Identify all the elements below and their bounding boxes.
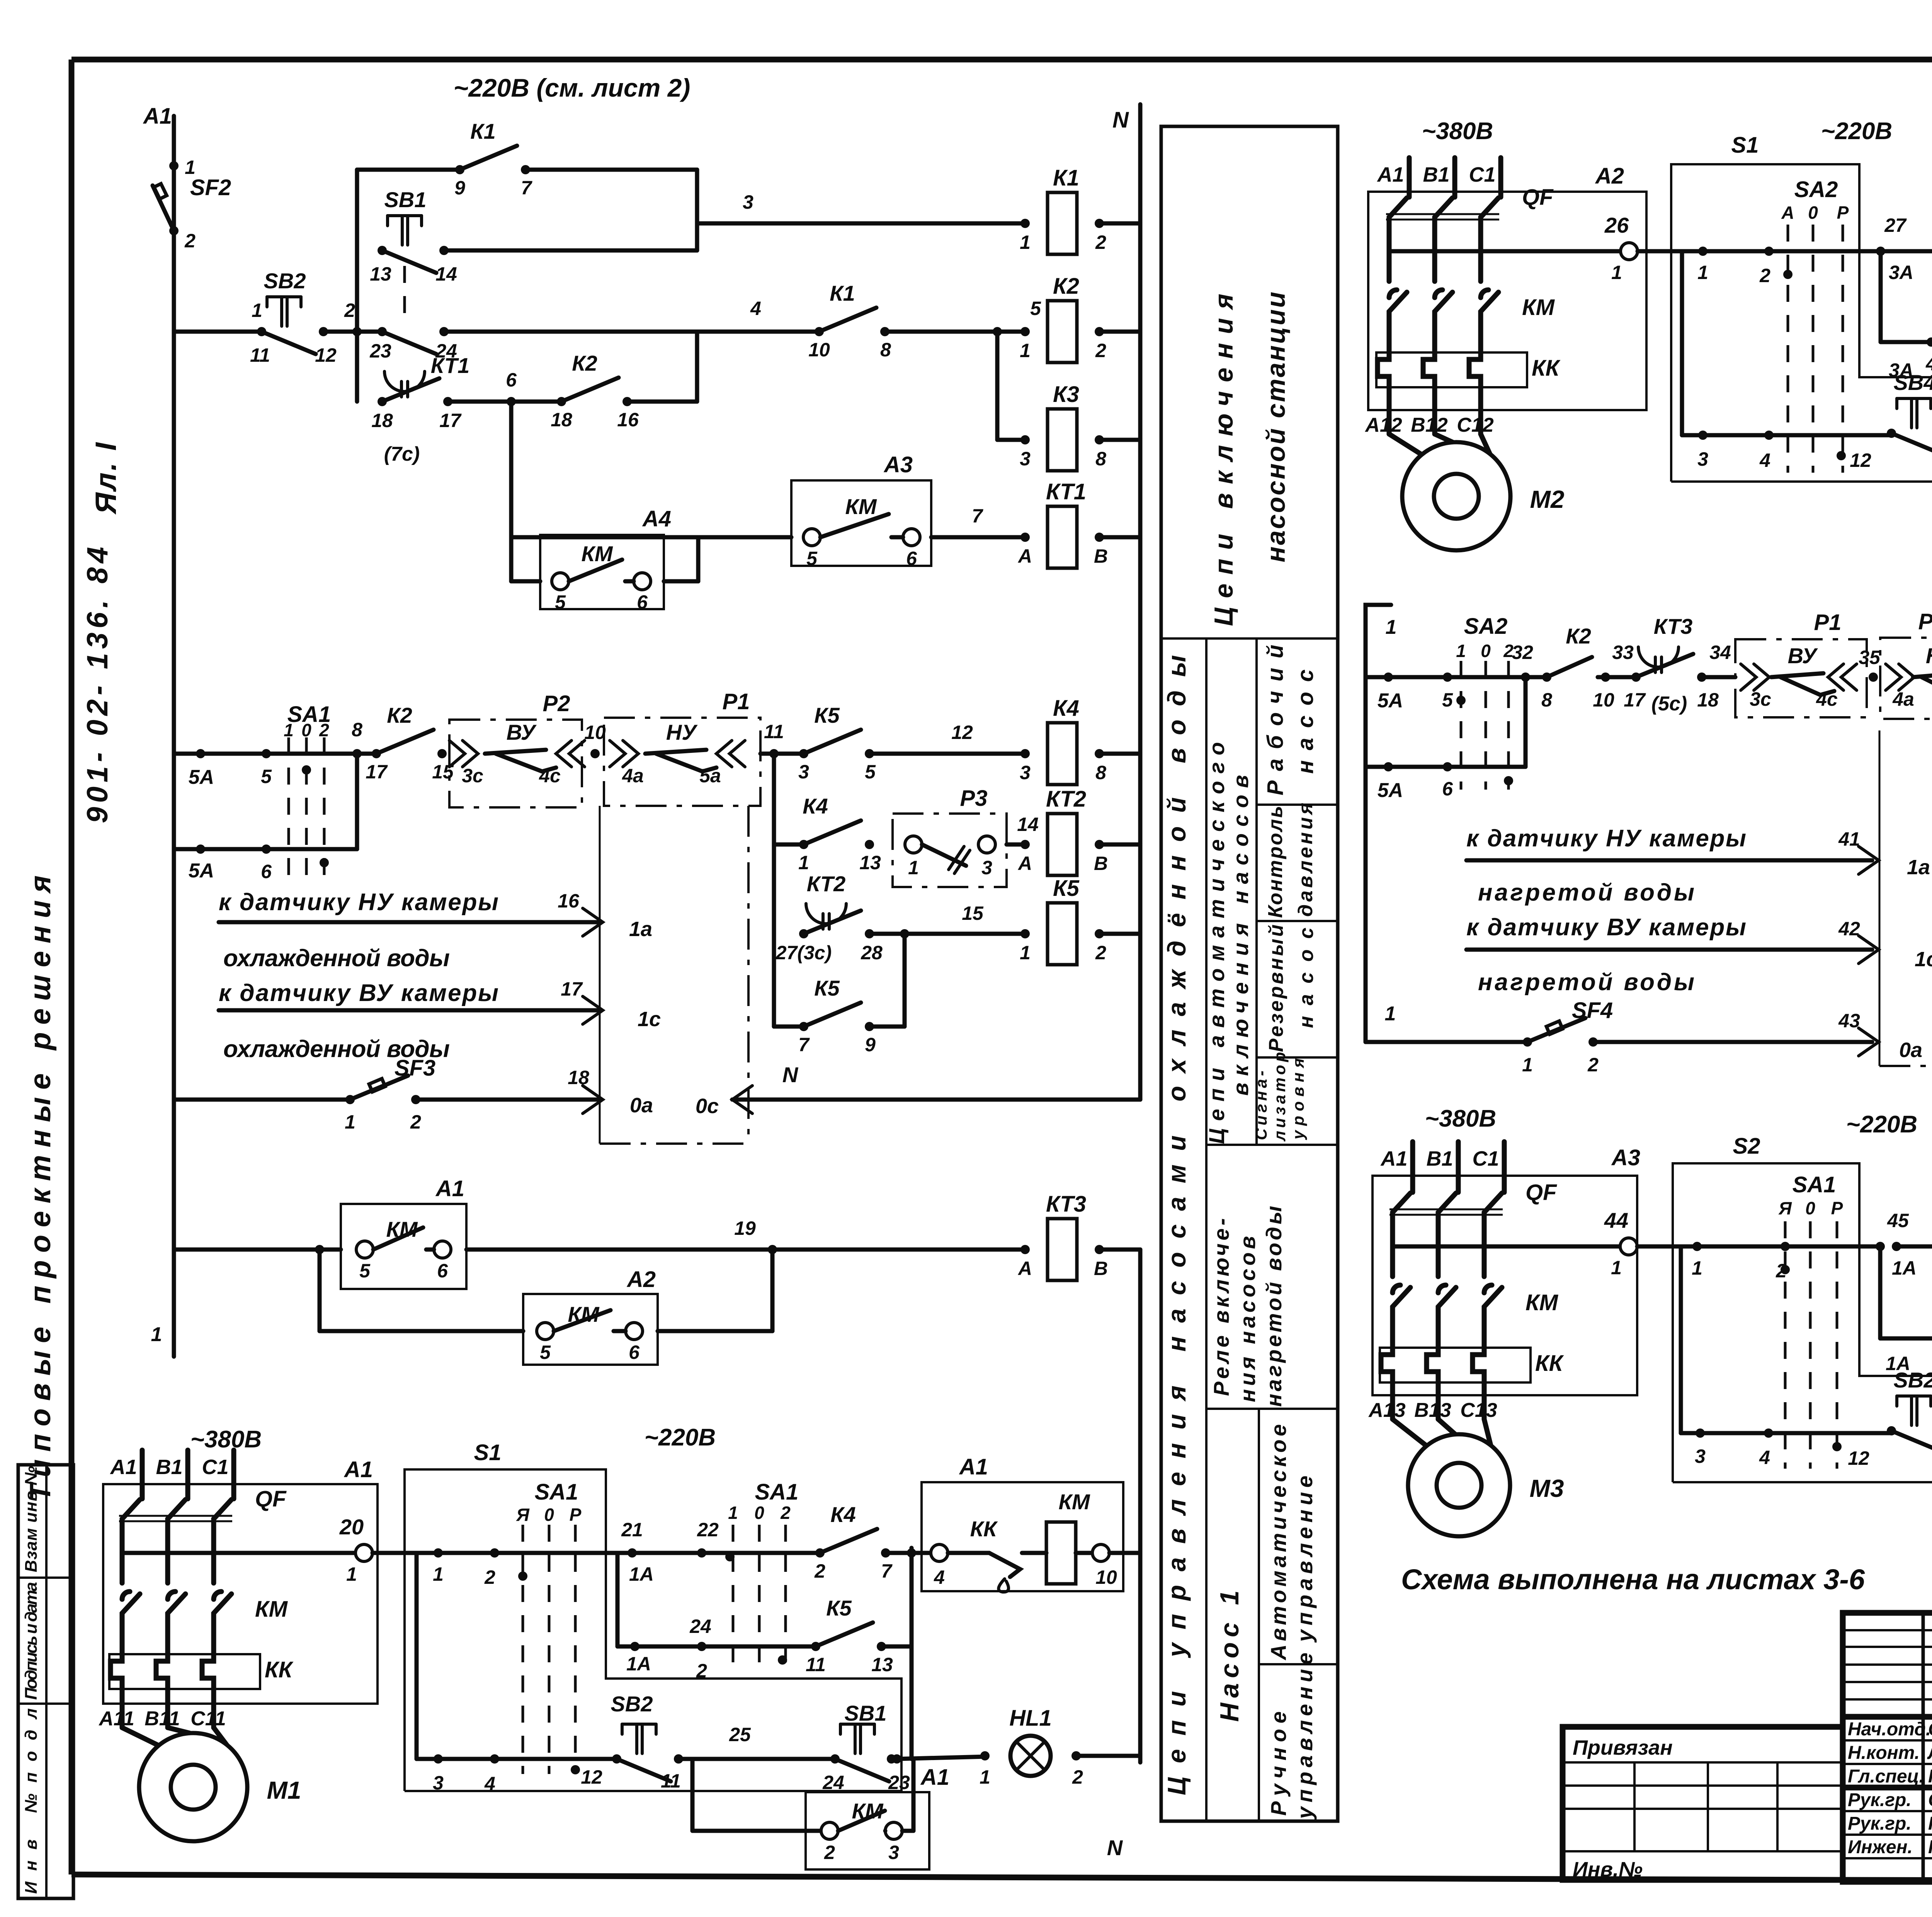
wire P3 to KT2 coil: [1007, 814, 1039, 844]
svg-text:КТ1: КТ1: [1046, 479, 1086, 504]
wire rung 45 to SA2 (M3): [1896, 1242, 1932, 1279]
svg-text:32: 32: [1512, 642, 1533, 663]
svg-text:17: 17: [439, 410, 462, 431]
svg-text:6: 6: [506, 369, 517, 391]
svg-text:23: 23: [888, 1772, 910, 1793]
svg-text:Сигна-: Сигна-: [1252, 1071, 1270, 1140]
svg-text:2: 2: [824, 1842, 835, 1863]
wire node 10: [584, 722, 606, 758]
svg-text:5: 5: [1442, 689, 1453, 711]
svg-text:к датчику НУ камеры: к датчику НУ камеры: [219, 889, 498, 916]
svg-text:Взам инв №: Взам инв №: [22, 1466, 41, 1572]
svg-text:N: N: [1107, 1835, 1123, 1860]
svg-text:3А: 3А: [1889, 262, 1913, 283]
label (5c): [1651, 693, 1687, 715]
svg-text:~220В: ~220В: [645, 1424, 716, 1451]
pressure relay P2 box with contact VU: [449, 691, 585, 807]
wire label 220V (M3): [1846, 1111, 1917, 1138]
wire rung K3: [997, 438, 1025, 442]
svg-text:16: 16: [617, 409, 639, 431]
svg-text:8: 8: [1541, 689, 1552, 711]
svg-text:4с: 4с: [539, 765, 561, 787]
wire lamp to N: [1076, 1754, 1140, 1758]
svg-text:А2: А2: [626, 1267, 656, 1292]
svg-text:Гисис: Гисис: [1928, 1766, 1932, 1787]
svg-text:13: 13: [871, 1654, 893, 1675]
wire 18 to 0a: [416, 1067, 653, 1117]
svg-text:4: 4: [750, 298, 761, 319]
selector SA2 columns (M2): [1788, 177, 1843, 473]
wire N return to 0c: [696, 1062, 1140, 1118]
wire rung 6: [448, 369, 561, 406]
svg-text:Р2: Р2: [1918, 609, 1932, 634]
wire S1 lower rung right (M2): [1769, 435, 1891, 471]
svg-text:КМ: КМ: [1058, 1490, 1090, 1514]
svg-text:1а: 1а: [1907, 856, 1930, 879]
svg-text:Нач.отд.: Нач.отд.: [1848, 1719, 1931, 1740]
svg-text:1: 1: [798, 852, 809, 873]
relay coil K3: [1020, 382, 1106, 471]
svg-text:А2: А2: [1595, 163, 1624, 189]
wire node 35: [1859, 647, 1881, 682]
net label A1 (top left rail): [143, 104, 172, 129]
svg-text:1: 1: [1697, 262, 1708, 283]
box A1 with KM aux contact (rung 19): [341, 1176, 466, 1289]
svg-text:10: 10: [584, 722, 606, 743]
svg-text:2: 2: [1095, 942, 1106, 964]
selector switch SA1 columns (left mid): [287, 702, 331, 877]
svg-text:А12: А12: [1364, 414, 1402, 436]
wire K3 coil to N: [1099, 438, 1140, 442]
title block outer frame: [1843, 1613, 1932, 1882]
svg-text:к датчику НУ камеры: к датчику НУ камеры: [1466, 825, 1746, 852]
wire label 220V top: [454, 73, 690, 102]
svg-text:К5: К5: [814, 976, 840, 1000]
mid band cell Насос 1: [1215, 1590, 1244, 1722]
svg-text:1: 1: [980, 1766, 990, 1788]
svg-text:2: 2: [1095, 232, 1106, 253]
svg-text:3с: 3с: [1750, 688, 1771, 710]
labels 1 0 2 (second SA1): [728, 1503, 791, 1523]
svg-text:2: 2: [184, 230, 196, 252]
pushbutton SB2 (M3): [1887, 1368, 1932, 1453]
net label N (M1 bottom): [1107, 1835, 1123, 1860]
svg-text:А1: А1: [920, 1765, 949, 1790]
svg-text:Я: Я: [1778, 1198, 1792, 1218]
relay coil K2: [1020, 274, 1106, 363]
labels Ya O P (M3): [1778, 1198, 1843, 1218]
svg-text:5: 5: [359, 1260, 371, 1282]
wire 3A vertical: [1881, 251, 1913, 381]
net label 1 (rail bottom): [151, 1323, 162, 1346]
svg-text:В: В: [1094, 545, 1108, 567]
wire A2 bridge up: [658, 1250, 772, 1331]
svg-text:12: 12: [581, 1766, 602, 1788]
wire rung 5A lower: [174, 844, 357, 882]
privyazan box: [1563, 1727, 1843, 1880]
svg-text:К3: К3: [1053, 382, 1079, 407]
svg-text:(5с): (5с): [1651, 693, 1687, 715]
svg-text:КТ1: КТ1: [431, 353, 469, 378]
wire rung 3 to coil K1: [697, 191, 1025, 223]
svg-text:27(3с): 27(3с): [776, 942, 832, 964]
svg-text:SA1: SA1: [535, 1479, 578, 1505]
privyazan label: [1573, 1736, 1673, 1759]
svg-text:5: 5: [540, 1342, 551, 1363]
svg-text:28: 28: [861, 942, 883, 964]
svg-text:5: 5: [865, 761, 876, 783]
svg-text:1А: 1А: [626, 1653, 651, 1675]
wire rail hook (right middle): [1366, 605, 1396, 1042]
svg-text:4: 4: [484, 1773, 495, 1794]
pushbutton SB4: [1887, 370, 1932, 456]
svg-text:42: 42: [1838, 918, 1860, 940]
mid band text Цепи включения насосной станции: [1209, 292, 1291, 626]
svg-text:Контроль: Контроль: [1264, 806, 1287, 918]
svg-text:А1: А1: [109, 1456, 137, 1479]
wire to A1 contactor box: [886, 1548, 939, 1558]
svg-text:К5: К5: [826, 1596, 852, 1620]
wire node 32 vertical: [1524, 677, 1528, 767]
time contact KT2 (27-28): [776, 872, 883, 964]
sensor wire 41 to 1a (rm): [1466, 825, 1930, 906]
title block vertical lines: [1923, 1613, 1932, 1882]
svg-text:Инв №подл: Инв №подл: [22, 1708, 41, 1894]
svg-text:S1: S1: [474, 1440, 502, 1465]
svg-text:1с: 1с: [1915, 948, 1932, 971]
svg-text:3с: 3с: [462, 765, 483, 787]
title block main horizontal lines: [1843, 1717, 1932, 1858]
svg-text:КМ: КМ: [255, 1597, 288, 1622]
svg-text:13: 13: [859, 852, 881, 873]
svg-text:С1: С1: [1472, 1147, 1499, 1170]
wire node 11 (M1): [661, 1754, 683, 1792]
svg-text:45: 45: [1887, 1210, 1909, 1231]
mid band cell Контроль давления: [1264, 803, 1317, 918]
svg-text:КМ: КМ: [581, 541, 613, 566]
wire rung 1A lower (M3): [1880, 1334, 1932, 1372]
svg-text:КТ3: КТ3: [1654, 614, 1692, 638]
svg-text:41: 41: [1838, 828, 1860, 850]
labels 1 0 2 (rm SA2): [1456, 641, 1514, 661]
svg-text:А11: А11: [98, 1708, 134, 1730]
svg-text:КМ: КМ: [845, 494, 877, 519]
svg-text:Р2: Р2: [543, 691, 570, 716]
contact K1 aux (9-7): [454, 119, 532, 199]
signal lamp HL1: [980, 1706, 1083, 1788]
svg-text:SB2: SB2: [1894, 1368, 1932, 1392]
svg-text:К5: К5: [814, 703, 840, 727]
selector SA2 columns (right middle): [1456, 614, 1509, 790]
svg-text:А3: А3: [883, 452, 913, 477]
svg-text:Ял. I: Ял. I: [90, 442, 122, 515]
circuit breaker SF3 row: [174, 1056, 435, 1104]
svg-text:16: 16: [558, 890, 580, 912]
wire rung KT1 coil: [511, 535, 791, 540]
contact K2 (32-10): [1542, 624, 1592, 682]
svg-text:10: 10: [808, 339, 830, 361]
box A1 with KK and KM coil: [922, 1454, 1123, 1592]
svg-text:20: 20: [339, 1515, 364, 1539]
svg-text:2: 2: [1759, 265, 1770, 286]
svg-text:7: 7: [972, 505, 983, 527]
svg-text:А1: А1: [1376, 163, 1404, 186]
wire rung 6 to vertical: [627, 332, 697, 402]
svg-text:8: 8: [352, 719, 362, 741]
selector SA1 second group columns: [733, 1479, 798, 1666]
svg-text:5А: 5А: [189, 860, 214, 882]
svg-text:8: 8: [1095, 762, 1106, 783]
svg-text:6: 6: [629, 1342, 640, 1363]
title block signature rows: [1848, 1719, 1932, 1857]
svg-text:Р1: Р1: [1814, 610, 1842, 635]
svg-text:1: 1: [252, 300, 262, 321]
wire rung 19 to coil KT3: [466, 1217, 1025, 1254]
wire A4 loop: [511, 537, 698, 581]
wire S1 lower rung right: [523, 1759, 617, 1788]
svg-text:18: 18: [1697, 689, 1719, 711]
svg-text:SB2: SB2: [264, 269, 306, 293]
contact K1 (10-8) on rung 4: [808, 281, 891, 361]
svg-text:К1: К1: [1053, 165, 1079, 191]
svg-text:26: 26: [1604, 213, 1629, 237]
svg-text:Р: Р: [1837, 203, 1849, 223]
box A1 with KM aux holding contact (M1): [806, 1765, 949, 1869]
wire node8 vertical: [355, 754, 359, 849]
mid band cell Сигнализатор уровня: [1252, 1052, 1307, 1142]
svg-text:А3: А3: [1611, 1145, 1640, 1170]
svg-text:1: 1: [1692, 1257, 1702, 1279]
relay coil KT3: [1017, 1192, 1108, 1280]
svg-text:19: 19: [734, 1217, 756, 1239]
circuit breaker SF4 row: [1366, 998, 1613, 1076]
wire label 380V (M1): [190, 1426, 262, 1453]
svg-text:КТ2: КТ2: [1046, 787, 1086, 812]
box A3 with KM aux contact: [791, 452, 931, 569]
svg-text:12: 12: [315, 344, 337, 366]
svg-text:1а: 1а: [629, 918, 652, 941]
svg-text:12: 12: [951, 722, 973, 743]
svg-text:33: 33: [1612, 642, 1634, 663]
svg-text:18: 18: [551, 409, 572, 431]
svg-text:С12: С12: [1457, 414, 1493, 436]
svg-text:10: 10: [1095, 1566, 1117, 1588]
wire S1 lower rung: [417, 1553, 523, 1794]
sensor wire 17 to 1c: [219, 978, 661, 1062]
svg-text:1А: 1А: [629, 1563, 654, 1585]
svg-text:SF4: SF4: [1572, 998, 1613, 1023]
wire rung 1 from rail to ladder: [174, 300, 262, 332]
svg-text:С1: С1: [202, 1456, 228, 1479]
wire K5 coil to N: [1099, 932, 1140, 936]
svg-text:нагретой воды: нагретой воды: [1262, 1206, 1286, 1407]
svg-text:А1: А1: [959, 1454, 988, 1479]
sensor wire 42 to 1c (rm): [1466, 914, 1932, 996]
sensor cabinet boundary (left): [600, 806, 748, 1144]
wire KM bridge M1 left: [692, 1759, 821, 1831]
svg-text:М2: М2: [1530, 485, 1565, 513]
svg-text:КТ3: КТ3: [1046, 1192, 1086, 1217]
contact SB1 second pole 23-24: [369, 266, 457, 362]
contact K5 aux holding (7-9): [798, 976, 876, 1056]
level relay P1 box with contact VU (right middle): [1735, 610, 1867, 717]
wire KT3 coil to N: [1099, 1248, 1140, 1252]
wire 1A vertical (M3): [1880, 1246, 1910, 1374]
svg-text:К2: К2: [572, 351, 597, 375]
svg-text:В13: В13: [1414, 1399, 1451, 1422]
svg-text:15: 15: [962, 902, 984, 924]
contact K4 (2-7): [814, 1502, 893, 1582]
svg-text:0: 0: [754, 1503, 764, 1523]
svg-text:2: 2: [1587, 1054, 1599, 1076]
svg-text:4а: 4а: [1892, 688, 1914, 710]
svg-text:К2: К2: [387, 703, 412, 727]
svg-text:НУ: НУ: [1926, 644, 1932, 668]
wire K1 coil to N: [1099, 221, 1140, 226]
svg-text:~220В: ~220В: [1821, 118, 1892, 145]
svg-text:0: 0: [1481, 641, 1491, 661]
svg-text:К4: К4: [803, 794, 828, 818]
svg-text:27: 27: [1884, 215, 1907, 236]
svg-text:3: 3: [1020, 762, 1031, 783]
middle band cell lines: [1161, 638, 1338, 1821]
wire sub-ladder left vertical: [355, 170, 359, 402]
stamp label Инв № подл: [22, 1708, 41, 1894]
wire rung 5A (right middle): [1366, 672, 1453, 712]
wire rung 5A lower (right middle): [1366, 762, 1526, 802]
svg-text:6: 6: [906, 548, 917, 569]
control switch S1 box (M1): [405, 1440, 901, 1791]
svg-text:11: 11: [661, 1770, 681, 1792]
svg-text:Р1: Р1: [723, 689, 750, 714]
wire SB1 to lamp: [887, 1754, 985, 1764]
wire sub-ladder right vertical: [695, 170, 699, 250]
svg-text:SB1: SB1: [845, 1701, 887, 1725]
svg-text:нагретой воды: нагретой воды: [1478, 969, 1694, 996]
labels SF3 pins: [345, 1111, 421, 1133]
svg-text:1: 1: [728, 1503, 738, 1523]
labels Ya O P: [516, 1505, 581, 1525]
left caption 901-02-136.84: [81, 547, 114, 823]
svg-text:SB2: SB2: [611, 1692, 653, 1716]
svg-text:0: 0: [1808, 203, 1818, 223]
svg-text:3: 3: [1697, 448, 1708, 470]
wire 1A vertical: [617, 1553, 711, 1675]
svg-text:Автоматическое: Автоматическое: [1266, 1424, 1291, 1661]
svg-text:В: В: [1094, 853, 1108, 874]
svg-text:17: 17: [1624, 689, 1646, 711]
svg-text:С11: С11: [190, 1708, 226, 1730]
motor feeder A1 block with QF KM KK: [98, 1450, 378, 1841]
svg-text:11: 11: [806, 1654, 826, 1675]
svg-text:ВУ: ВУ: [1788, 644, 1818, 668]
wire S2 lower rung: [1681, 1246, 1773, 1468]
pushbutton SB2 (M1 manual stop): [611, 1692, 683, 1781]
relay coil KT1: [1017, 479, 1108, 568]
wire S1 top rung (M2): [1697, 247, 1793, 286]
wire rung 25 to SB1: [679, 1724, 835, 1759]
svg-text:1: 1: [1020, 340, 1031, 361]
svg-text:Подпись и дата: Подпись и дата: [22, 1582, 41, 1700]
wire rung 5 to coil K2: [885, 298, 1041, 336]
svg-text:QF: QF: [1526, 1180, 1557, 1205]
label (7c): [384, 443, 420, 465]
svg-text:Инжен.: Инжен.: [1848, 1837, 1913, 1857]
svg-text:8: 8: [880, 339, 891, 361]
control switch S1 box (M2): [1671, 133, 1932, 482]
svg-text:S2: S2: [1733, 1134, 1760, 1159]
svg-text:44: 44: [1604, 1208, 1628, 1233]
wire rung 24 corner down: [881, 1548, 912, 1759]
svg-text:Резервный: Резервный: [1265, 924, 1287, 1052]
svg-text:4а: 4а: [622, 765, 644, 787]
svg-text:9: 9: [454, 177, 465, 199]
svg-text:1: 1: [284, 720, 294, 740]
wire KM bridge M1 right: [902, 1759, 913, 1831]
note Схема выполнена на листах 3-6: [1401, 1563, 1865, 1595]
svg-text:11: 11: [250, 344, 270, 366]
svg-text:~220В (см. лист 2): ~220В (см. лист 2): [454, 73, 690, 102]
svg-text:34: 34: [1709, 642, 1731, 663]
relay coil K5: [1020, 876, 1106, 965]
wire rung to 45: [1785, 1210, 1917, 1279]
svg-text:N: N: [1112, 107, 1129, 133]
svg-text:Н.конт.: Н.конт.: [1848, 1743, 1920, 1763]
svg-text:3: 3: [1020, 448, 1031, 470]
svg-text:8: 8: [1095, 448, 1106, 470]
svg-text:В1: В1: [1423, 163, 1449, 186]
svg-text:5А: 5А: [1378, 779, 1403, 802]
svg-text:2: 2: [696, 1660, 707, 1682]
svg-text:1с: 1с: [638, 1008, 661, 1031]
svg-text:N: N: [782, 1062, 799, 1087]
svg-text:~380В: ~380В: [190, 1426, 262, 1453]
svg-text:Я: Я: [516, 1505, 530, 1525]
svg-text:нагретой воды: нагретой воды: [1478, 879, 1694, 906]
svg-text:1: 1: [1386, 616, 1397, 638]
svg-text:В1: В1: [1426, 1147, 1453, 1170]
selector SA1 columns (M3): [1785, 1172, 1837, 1469]
svg-text:Коротненко: Коротненко: [1928, 1837, 1932, 1857]
svg-text:А1: А1: [435, 1176, 464, 1201]
title block upper-left row lines: [1843, 1630, 1932, 1699]
svg-text:КК: КК: [1532, 356, 1561, 381]
svg-text:НУ: НУ: [666, 720, 698, 744]
wire node 18: [1697, 642, 1735, 711]
svg-text:ВУ: ВУ: [507, 720, 537, 744]
svg-text:1: 1: [1456, 641, 1466, 661]
svg-text:ния насосов: ния насосов: [1235, 1236, 1260, 1402]
svg-text:К4: К4: [830, 1502, 856, 1527]
svg-text:SA1: SA1: [1793, 1172, 1836, 1197]
left margin stamp boxes: [18, 1465, 73, 1898]
svg-text:9: 9: [865, 1034, 876, 1056]
wire rung SB1 to right vertical: [444, 249, 697, 253]
wire A1 box to N: [1109, 1551, 1140, 1555]
svg-text:4: 4: [1759, 1447, 1770, 1468]
svg-text:3: 3: [743, 191, 753, 213]
svg-text:18: 18: [568, 1067, 589, 1088]
svg-text:А1: А1: [143, 104, 172, 129]
svg-text:0: 0: [544, 1505, 554, 1525]
wire 44 to S2: [1637, 1245, 1697, 1249]
wire rung 3A lower (M2): [1881, 337, 1932, 375]
labels 1 0 2 for SA1: [284, 720, 329, 740]
svg-text:3: 3: [981, 857, 992, 878]
svg-text:1: 1: [151, 1323, 162, 1346]
svg-text:Реле включе-: Реле включе-: [1209, 1218, 1233, 1396]
svg-text:3: 3: [798, 761, 809, 783]
